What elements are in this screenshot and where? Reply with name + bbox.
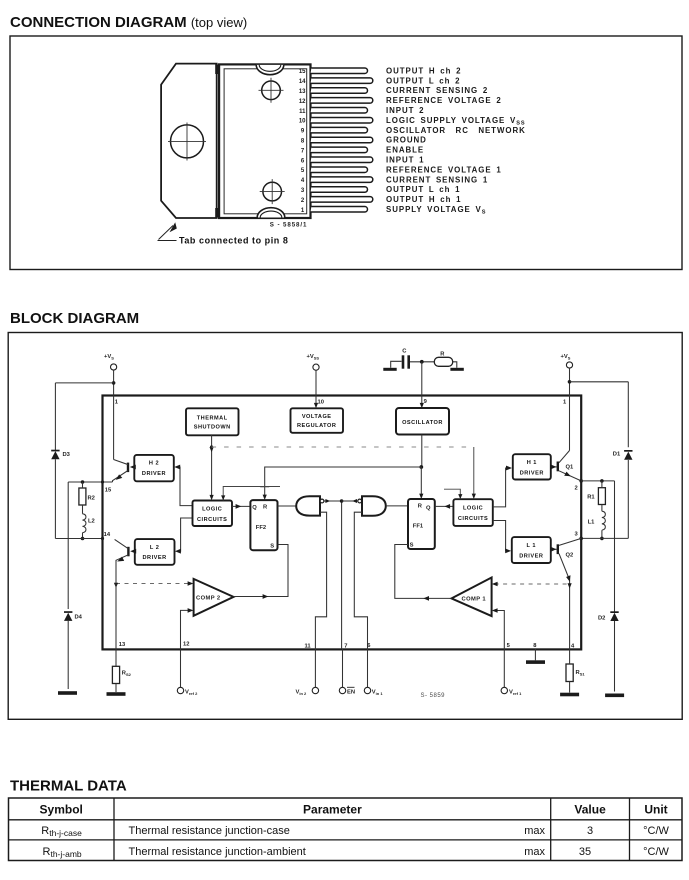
- svg-text:DRIVER: DRIVER: [519, 553, 543, 559]
- pin 6 lead: [311, 157, 373, 163]
- svg-text:CURRENT SENSING 1: CURRENT SENSING 1: [386, 175, 488, 184]
- svg-text:R2: R2: [88, 496, 95, 502]
- pin 14 lead: [311, 78, 373, 84]
- svg-text:BLOCK DIAGRAM: BLOCK DIAGRAM: [10, 310, 139, 327]
- wire logic circuits to L2 driver: [178, 518, 192, 551]
- ground D4: [58, 691, 77, 695]
- svg-text:R1: R1: [587, 495, 595, 501]
- oscillator ground right: [450, 368, 463, 371]
- svg-text:max: max: [524, 846, 545, 858]
- FF1 box: [408, 499, 435, 549]
- wire COMP2 output to FF2 S: [234, 545, 289, 597]
- svg-text:D1: D1: [613, 452, 621, 458]
- wire ground to capacitor C: [391, 361, 402, 368]
- svg-text:REFERENCE VOLTAGE 1: REFERENCE VOLTAGE 1: [386, 165, 502, 174]
- inductor L2: [83, 514, 86, 533]
- arrow on thermal shutdown wire: [210, 447, 214, 452]
- junction dot +Vs left: [112, 381, 116, 385]
- wire EN line: [341, 501, 343, 649]
- pin 7 lead: [311, 147, 368, 153]
- svg-text:15: 15: [105, 488, 112, 494]
- wire COMP1 output to FF1 S: [395, 545, 452, 599]
- svg-text:RS1: RS1: [576, 670, 586, 676]
- svg-text:LOGIC: LOGIC: [463, 505, 483, 511]
- svg-text:L2: L2: [88, 519, 95, 525]
- package body inner border: [224, 69, 307, 214]
- pin 15 lead: [311, 68, 368, 74]
- wire Rs1 to ground: [569, 682, 571, 693]
- svg-text:D4: D4: [75, 615, 83, 621]
- ground pin 8: [526, 660, 545, 664]
- pin 2 lead: [311, 197, 373, 203]
- arrow into L2 driver right edge: [175, 549, 181, 554]
- wire pin 8 ground stub: [534, 649, 536, 660]
- COMP1 triangle: [452, 578, 492, 617]
- arrow into voltage regulator: [314, 403, 318, 408]
- chip outline box: [103, 396, 582, 650]
- Q1 collector wire: [559, 451, 570, 463]
- Q2 collector wire: [559, 538, 581, 545]
- resistor Rs2: [112, 666, 119, 683]
- wire +Vs left to D3: [55, 382, 113, 384]
- svg-text:CURRENT SENSING 2: CURRENT SENSING 2: [386, 86, 488, 95]
- wire L2 to pin 14 line: [82, 533, 84, 539]
- junction dot pin 3 at chip edge: [579, 537, 583, 541]
- svg-text:COMP 1: COMP 1: [462, 597, 487, 603]
- svg-text:S- 5859: S- 5859: [421, 693, 446, 699]
- diode D2: [610, 613, 618, 621]
- wire logic circuits right to H1 driver: [493, 468, 509, 507]
- svg-text:Q1: Q1: [566, 465, 575, 471]
- svg-text:H 1: H 1: [527, 460, 537, 466]
- svg-text:°C/W: °C/W: [643, 825, 669, 837]
- diode D4: [64, 613, 72, 621]
- terminal Vref2: [177, 687, 183, 693]
- svg-text:OSCILLATOR: OSCILLATOR: [402, 420, 443, 426]
- svg-text:LOGIC: LOGIC: [202, 506, 222, 512]
- wire D4 branch: [67, 482, 69, 689]
- Q1 emitter arrowhead: [564, 472, 571, 477]
- stub input logic circuits right (second): [444, 489, 460, 499]
- svg-text:Thermal resistance junction-am: Thermal resistance junction-ambient: [129, 846, 306, 858]
- body hole bottom: [263, 182, 282, 201]
- svg-text:REFERENCE VOLTAGE 2: REFERENCE VOLTAGE 2: [386, 96, 502, 105]
- pin 15 line: [68, 481, 112, 483]
- crossing tick on FF2 R wire: [260, 486, 269, 488]
- svg-text:Tab connected to pin 8: Tab connected to pin 8: [179, 236, 288, 246]
- wire logic circuits right to FF1: [435, 505, 454, 507]
- terminal Vin1: [364, 687, 370, 693]
- svg-text:Parameter: Parameter: [303, 803, 362, 817]
- arrow into oscillator: [420, 403, 424, 408]
- svg-text:D2: D2: [598, 616, 605, 622]
- table frame: [9, 798, 683, 861]
- VOLTAGE REGULATOR box: [291, 408, 344, 433]
- Q1 base bar: [557, 462, 559, 472]
- frame box of connection diagram: [10, 36, 682, 270]
- wire left gate output to FF2: [278, 505, 297, 507]
- wire EN to G1 bubble: [342, 500, 358, 502]
- arrow driver to Q2 base: [551, 547, 557, 552]
- junction dot pin 2 at chip edge: [579, 479, 583, 483]
- arrow into logic circuits left: [210, 495, 214, 500]
- wire pin 12 to Vref2 terminal: [180, 649, 182, 687]
- svg-text:14: 14: [299, 79, 306, 85]
- wire oscillator to FF2 R input: [265, 467, 422, 497]
- FF2 box: [250, 500, 277, 550]
- resistor R (horizontal): [434, 357, 452, 366]
- svg-text:S - 5858/1: S - 5858/1: [270, 222, 308, 229]
- svg-text:OUTPUT L ch 2: OUTPUT L ch 2: [386, 76, 460, 85]
- svg-text:OUTPUT L ch 1: OUTPUT L ch 1: [386, 185, 460, 194]
- svg-text:S: S: [270, 543, 274, 549]
- junction dot +Vs right: [568, 380, 572, 384]
- frame box of block diagram: [8, 333, 682, 720]
- junction dot L1 bottom: [600, 537, 604, 541]
- arrow into L1 driver: [505, 549, 511, 554]
- svg-text:Vin 2: Vin 2: [296, 690, 308, 696]
- H2 transistor collector wire: [114, 460, 128, 465]
- svg-text:FF2: FF2: [256, 525, 266, 531]
- arrow logic right to FF1: [444, 504, 450, 509]
- wire EN to G2 bubble: [324, 500, 342, 502]
- svg-text:Q: Q: [426, 506, 431, 512]
- wire pin 9 from node to oscillator box: [421, 362, 423, 405]
- arrow into COMP1 bottom input: [492, 608, 498, 613]
- pin 2 line: [581, 480, 614, 482]
- arrow on pin13 wire (current direction): [114, 583, 118, 588]
- THERMAL SHUTDOWN box: [186, 408, 239, 435]
- pin 8 lead: [311, 137, 373, 143]
- arrow driver to H2 base: [130, 465, 136, 470]
- wire pin 13 sense to COMP2 + input: [116, 583, 191, 585]
- body hole top: [262, 81, 281, 100]
- junction dot EN: [340, 499, 344, 503]
- wire H1 driver to Q1 base: [551, 466, 557, 468]
- tab mounting hole: [171, 125, 204, 158]
- resistor R1: [598, 488, 605, 505]
- LOGIC CIRCUITS left box: [193, 501, 233, 527]
- gate G2 (left, points left): [296, 496, 320, 515]
- heatsink tab polygon: [161, 64, 217, 218]
- arrow into COMP2 top input: [188, 581, 194, 586]
- wire G2 lower input from INPUT 2: [315, 512, 326, 649]
- pin 1 lead: [311, 207, 368, 213]
- terminal +Vs left: [111, 364, 117, 370]
- svg-text:Vref 2: Vref 2: [185, 690, 198, 696]
- Q2 base bar: [557, 544, 559, 554]
- wire logic circuits to FF2: [232, 505, 250, 507]
- tab hole crosshair: [168, 123, 206, 161]
- svg-text:Q2: Q2: [566, 553, 574, 559]
- pin 4 lead: [311, 177, 373, 183]
- arrow into COMP2 bottom input: [188, 608, 194, 613]
- pin 13 lead: [311, 88, 368, 94]
- junction dot pin 14 at chip edge: [101, 537, 104, 540]
- svg-text:max: max: [524, 825, 545, 837]
- wire pin 5 to Vref1 terminal: [503, 649, 505, 687]
- L2 DRIVER box: [135, 539, 175, 565]
- svg-text:VOLTAGE: VOLTAGE: [302, 414, 332, 420]
- arrow driver to Q1 base: [551, 465, 557, 470]
- svg-text:13: 13: [299, 89, 306, 95]
- svg-text:Q: Q: [252, 505, 257, 511]
- wire C to node to R: [410, 362, 457, 368]
- L2 transistor emitter wire: [116, 555, 128, 584]
- arrow on COMP1 output: [423, 596, 429, 601]
- wire pin 13 down from L2 emitter: [115, 584, 117, 667]
- arrow into H1 driver: [506, 466, 512, 471]
- svg-text:S: S: [410, 543, 414, 549]
- wire logic circuits right to L1 driver: [493, 521, 509, 551]
- wire thermal shutdown to logic circuits left: [211, 435, 213, 498]
- svg-text:FF1: FF1: [413, 524, 424, 530]
- LOGIC CIRCUITS right box: [453, 499, 492, 526]
- arrow logic to FF2: [236, 504, 242, 509]
- wire D1 branch: [627, 382, 629, 539]
- tab/body joint tick bottom: [215, 208, 218, 218]
- svg-text:COMP 2: COMP 2: [196, 595, 221, 601]
- arrow into FF1 R: [419, 494, 423, 499]
- oscillator ground left: [383, 368, 396, 371]
- diode D3: [51, 451, 59, 459]
- stub input logic circuits left (second): [223, 487, 280, 501]
- wire L1 to pin 3 line: [601, 530, 603, 538]
- svg-text:OUTPUT H ch 1: OUTPUT H ch 1: [386, 195, 461, 204]
- arrow into logic circuits left second input: [221, 495, 225, 500]
- svg-text:Symbol: Symbol: [40, 803, 83, 817]
- wire pin 11 to Vin2 terminal: [314, 649, 316, 687]
- wire pin2 to R1 to L1: [601, 481, 603, 511]
- gate G1 (right, points right): [362, 496, 386, 516]
- wire G1 lower input from INPUT 1: [354, 512, 367, 649]
- G1 inverting input bubble: [358, 499, 362, 503]
- svg-text:REGULATOR: REGULATOR: [297, 423, 336, 429]
- svg-text:OUTPUT H ch 2: OUTPUT H ch 2: [386, 66, 461, 75]
- wire Rs2 to ground: [115, 684, 117, 693]
- svg-text:DRIVER: DRIVER: [520, 470, 544, 476]
- junction dot oscillator node: [420, 360, 424, 364]
- svg-text:D3: D3: [63, 452, 71, 458]
- svg-text:12: 12: [299, 99, 306, 105]
- svg-text:EN: EN: [347, 690, 355, 696]
- bottom notch: [257, 208, 285, 218]
- wire down into right logic circuits: [473, 447, 475, 497]
- junction dot R2 top: [81, 480, 85, 484]
- inductor L1: [602, 511, 605, 530]
- svg-text:11: 11: [299, 109, 306, 115]
- svg-text:7: 7: [344, 644, 347, 650]
- table column lines: [114, 798, 630, 861]
- svg-text:INPUT 1: INPUT 1: [386, 156, 425, 165]
- table row lines: [9, 820, 683, 840]
- svg-text:L1: L1: [588, 520, 596, 526]
- svg-text:+VS: +VS: [561, 354, 571, 360]
- OSCILLATOR box: [396, 408, 449, 435]
- pin 5 lead: [311, 167, 368, 173]
- pin 12 lead: [311, 98, 373, 104]
- wire Vref1 to COMP1 - input: [495, 611, 505, 650]
- svg-text:OSCILLATOR RC NETWORK: OSCILLATOR RC NETWORK: [386, 126, 526, 135]
- svg-text:DRIVER: DRIVER: [143, 555, 167, 561]
- arrow on G1 input wire: [352, 499, 357, 503]
- svg-text:CONNECTION DIAGRAM (top view): CONNECTION DIAGRAM (top view): [10, 14, 247, 31]
- pin 10 lead: [311, 117, 373, 123]
- wire +Vs left down to pin 1 and into chip: [113, 370, 115, 459]
- pin 9 lead: [311, 127, 368, 133]
- wire pin 4 to Rs1: [569, 649, 571, 664]
- svg-text:L 2: L 2: [150, 545, 159, 551]
- H1 DRIVER box: [513, 454, 551, 479]
- svg-text:DRIVER: DRIVER: [142, 471, 166, 477]
- arrow on pin4 wire (current direction): [568, 583, 572, 588]
- H2 DRIVER box: [134, 455, 174, 481]
- svg-text:15: 15: [299, 69, 306, 75]
- terminal EN: [339, 687, 345, 693]
- L2 emitter arrowhead: [117, 557, 124, 562]
- svg-text:Vin 1: Vin 1: [372, 690, 384, 696]
- Q2 emitter wire: [559, 554, 570, 649]
- junction dot L2 bottom: [81, 537, 85, 541]
- junction dot pin 15 at chip edge: [101, 480, 104, 483]
- arrow into H2 driver right edge: [174, 465, 180, 470]
- wire Q2 emitter sense to COMP1 + input: [495, 583, 570, 585]
- svg-text:Value: Value: [574, 803, 606, 817]
- L1 DRIVER box: [512, 537, 551, 563]
- top notch: [256, 65, 284, 75]
- wire +Vs right to D1 branch: [570, 381, 629, 383]
- wire D2 branch: [614, 481, 616, 692]
- terminal +Vs right: [566, 362, 572, 368]
- COMP2 triangle: [194, 579, 234, 616]
- svg-text:Vref 1: Vref 1: [509, 690, 522, 696]
- package body outer: [219, 64, 310, 218]
- ground Rs2: [107, 692, 126, 696]
- svg-text:3: 3: [587, 825, 593, 837]
- svg-text:CIRCUITS: CIRCUITS: [197, 517, 227, 523]
- pin 14 line: [55, 538, 102, 540]
- wire oscillator to FF1 R input: [420, 467, 422, 496]
- svg-text:GROUND: GROUND: [386, 136, 427, 145]
- svg-text:11: 11: [305, 644, 312, 650]
- ground Rs1: [560, 693, 579, 697]
- G2 inverting input bubble: [320, 499, 324, 503]
- junction dot R1 top: [600, 479, 604, 483]
- svg-text:INPUT 2: INPUT 2: [386, 106, 425, 115]
- svg-text:THERMAL: THERMAL: [197, 415, 228, 421]
- oscillator output wire down: [421, 435, 423, 468]
- svg-text:35: 35: [579, 846, 591, 858]
- terminal +Vss: [313, 364, 319, 370]
- svg-text:+VSS: +VSS: [307, 354, 320, 360]
- capacitor C plates: [402, 355, 405, 368]
- L2 transistor collector wire: [115, 539, 129, 548]
- resistor R2: [79, 488, 86, 505]
- arrow into logic circuits right: [472, 494, 476, 499]
- svg-text:Thermal resistance junction-ca: Thermal resistance junction-case: [129, 825, 290, 837]
- Q1 emitter wire: [559, 471, 581, 481]
- junction dot oscillator output: [419, 465, 423, 469]
- wire logic circuits to H2 driver: [178, 467, 193, 506]
- svg-text:ENABLE: ENABLE: [386, 146, 424, 155]
- L2 driver transistor base bar: [127, 547, 129, 557]
- pin 3 line: [581, 537, 628, 539]
- arrow into logic circuits right second input: [458, 494, 462, 499]
- leader arrow to tab: [158, 226, 177, 241]
- svg-text:+VS: +VS: [104, 354, 114, 360]
- arrow into COMP1 top input: [492, 582, 498, 587]
- svg-text:THERMAL DATA: THERMAL DATA: [10, 778, 127, 795]
- wire +Vs right down into chip to Q1 collector: [569, 368, 571, 450]
- svg-text:°C/W: °C/W: [643, 846, 669, 858]
- H2 driver transistor base bar: [127, 463, 129, 473]
- thermal line across to right logic circuits: [212, 446, 474, 448]
- arrow into FF2 R: [263, 495, 267, 500]
- wire pin 10 from +Vss to voltage regulator: [315, 370, 317, 405]
- H2 transistor emitter wire: [113, 471, 129, 483]
- svg-text:RS2: RS2: [122, 671, 132, 677]
- svg-text:L 1: L 1: [527, 543, 536, 549]
- ground D2: [605, 694, 624, 698]
- wire R2 to L2: [82, 482, 84, 514]
- diode D1: [624, 452, 632, 460]
- wire Vref2 to COMP2 - input: [181, 610, 191, 649]
- svg-text:CIRCUITS: CIRCUITS: [458, 516, 488, 522]
- H2 emitter arrowhead: [116, 474, 123, 480]
- arrow on G2 output wire: [325, 499, 330, 503]
- wire D3 branch: [54, 383, 56, 539]
- pin 3 lead: [311, 187, 368, 193]
- svg-text:Unit: Unit: [644, 803, 667, 817]
- wire pin 7 to EN terminal: [342, 649, 344, 687]
- svg-text:SHUTDOWN: SHUTDOWN: [194, 425, 231, 431]
- arrow on COMP2 output: [263, 594, 269, 599]
- svg-text:10: 10: [299, 119, 306, 125]
- wire G1 output to FF1: [386, 505, 408, 507]
- svg-text:12: 12: [183, 642, 189, 648]
- svg-text:10: 10: [318, 400, 324, 406]
- wire L1 driver to Q2 base: [551, 548, 557, 550]
- terminal Vin2: [312, 687, 318, 693]
- svg-text:2: 2: [575, 486, 578, 492]
- tab/body joint tick top: [215, 65, 218, 75]
- resistor Rs1: [566, 664, 573, 682]
- svg-text:14: 14: [104, 532, 111, 538]
- terminal Vref1: [501, 687, 507, 693]
- arrow driver to L2 base: [130, 549, 136, 554]
- pin 11 lead: [311, 108, 368, 114]
- svg-text:13: 13: [119, 642, 126, 648]
- Q2 emitter arrowhead: [566, 575, 570, 582]
- junction dot thermal line: [210, 445, 213, 448]
- svg-text:H 2: H 2: [149, 461, 159, 467]
- wire pin 6 to Vin1 terminal: [367, 649, 369, 687]
